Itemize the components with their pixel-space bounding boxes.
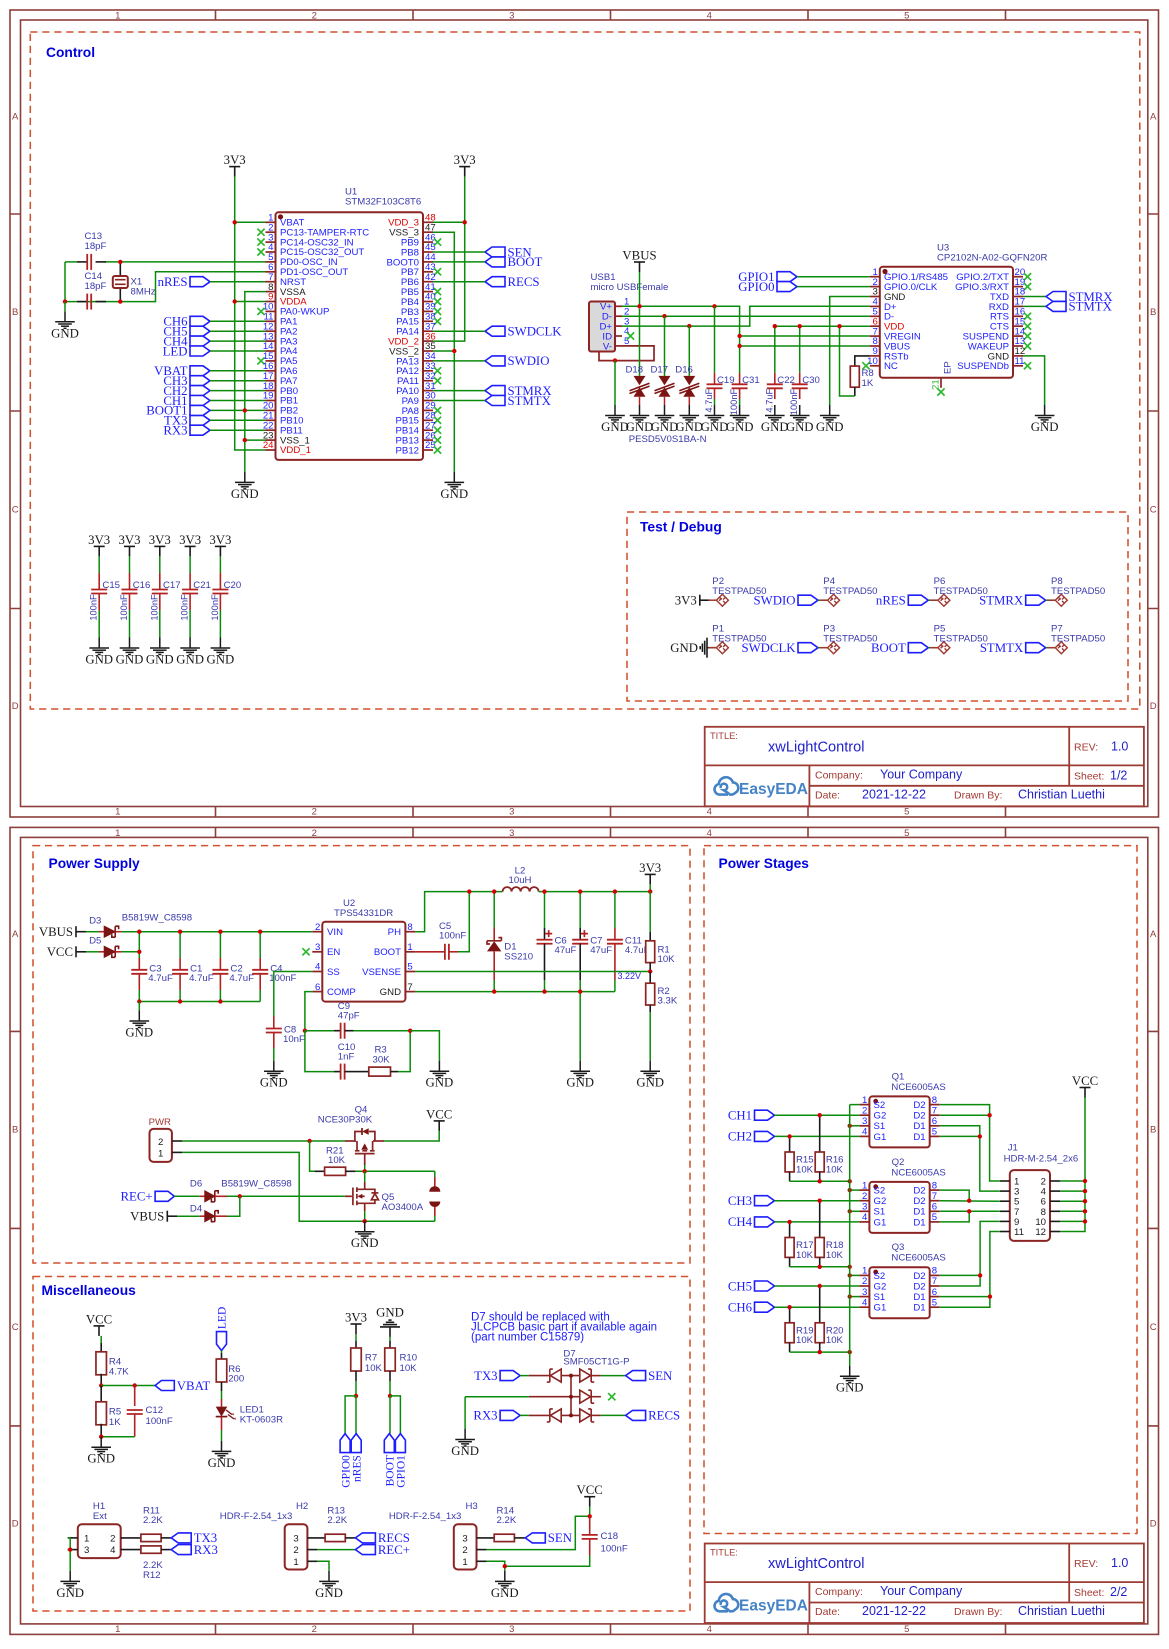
junction VBUS/D18 [637, 304, 641, 308]
svg-text:GND: GND [701, 420, 729, 434]
wire VCC rail (J1) [1060, 1098, 1085, 1232]
net flag CH6 [755, 1302, 775, 1312]
svg-text:D5: D5 [89, 936, 101, 947]
ground (R5/C12) [91, 1437, 111, 1454]
net flag nRES (strap) [351, 1434, 361, 1453]
net flag RX3 [190, 425, 210, 435]
svg-text:GND: GND [315, 1586, 343, 1600]
wire 3V3 to VDD_2 [433, 177, 465, 342]
svg-text:GND: GND [491, 1586, 519, 1600]
svg-text:BOOT: BOOT [871, 641, 906, 655]
svg-text:RECS: RECS [508, 275, 540, 289]
svg-text:3V3: 3V3 [88, 533, 110, 547]
ground USB shield [605, 405, 625, 422]
wire VCC down [589, 1507, 591, 1517]
connector H2 HDR-F-2.54_1x3 [285, 1524, 308, 1569]
svg-text:REC+: REC+ [378, 1543, 410, 1557]
svg-text:4.7uF: 4.7uF [764, 388, 774, 412]
wire VSENSE row [415, 971, 650, 973]
svg-text:TITLE:: TITLE: [710, 1548, 738, 1558]
svg-text:1K: 1K [109, 1417, 121, 1428]
ground (D7) [455, 1429, 475, 1446]
svg-text:1: 1 [115, 807, 120, 818]
junction VIN/C2 [218, 930, 222, 934]
wire VCC to C3 column [122, 951, 140, 953]
U3 pin 17 RXD [1013, 305, 1023, 307]
net flag BOOT (strap) [384, 1434, 394, 1453]
capacitor C21 100nF [189, 556, 191, 573]
Q2 pin 7 D2 [930, 1200, 940, 1202]
ground crystal [55, 311, 75, 328]
svg-text:3: 3 [862, 1116, 867, 1127]
junction R4/R5/VBAT [99, 1383, 103, 1387]
net flag RX3 (H1) [171, 1545, 191, 1555]
junction VIN/C4 [258, 930, 262, 934]
connector USB1 micro USBFemale [589, 302, 615, 352]
resistor R20 10K [819, 1286, 821, 1323]
U1 pin 15 PA5 [266, 360, 276, 362]
svg-text:BOOT: BOOT [508, 255, 543, 269]
svg-text:100nF: 100nF [601, 1544, 628, 1555]
svg-text:C18: C18 [601, 1531, 619, 1542]
Q3 pin 7 D2 [930, 1285, 940, 1287]
USB1 pin 1 V+ [615, 305, 622, 307]
U3 pin 2 GPIO.0/CLK [870, 286, 880, 288]
PWR pin 2 stub [172, 1140, 182, 1142]
wire R3 to comp node [398, 1031, 410, 1072]
PWR pin 1 stub [172, 1151, 182, 1153]
net flag RECS [485, 277, 505, 287]
U1 pin 6 PD1-OSC_OUT [266, 271, 276, 273]
U1 pin 1 VBAT [266, 221, 276, 223]
net flag SWDCLK (testpad) [798, 643, 818, 653]
U1 pin 20 PB2 [266, 409, 276, 411]
U1 pin 45 PB8 [423, 251, 433, 253]
svg-text:3: 3 [862, 1287, 867, 1298]
U3 pin-1 marker [882, 269, 887, 274]
net flag nRES (testpad) [908, 595, 928, 605]
svg-text:Your Company: Your Company [880, 767, 963, 781]
U3 pin 11 SUSPENDb [1013, 365, 1023, 367]
svg-text:4: 4 [110, 1545, 116, 1556]
U3 pin 12 GND [1013, 355, 1023, 357]
U1 pin 21 PB10 [266, 419, 276, 421]
junction D1/gnd row [492, 989, 496, 993]
svg-text:S1: S1 [874, 1292, 886, 1303]
wire VBAT pin1 [235, 221, 266, 223]
net flag CH4 [190, 336, 210, 346]
title block [705, 727, 1144, 807]
U1 pin-1 marker [278, 214, 283, 219]
svg-text:VCC: VCC [86, 1312, 112, 1326]
svg-text:GND: GND [376, 1306, 404, 1320]
svg-text:REC+: REC+ [120, 1190, 152, 1204]
TVS diode D17 (PESD5V0S1BA-N) [664, 316, 666, 376]
junction VCC rail [1083, 1209, 1087, 1213]
svg-text:CH3: CH3 [728, 1194, 752, 1208]
Q2 pin 8 D2 [930, 1189, 940, 1191]
Q1 pin 2 G2 [859, 1114, 869, 1116]
Power Stages section box [704, 846, 1137, 1534]
Q1 pin 3 S1 [859, 1125, 869, 1127]
svg-text:RECS: RECS [648, 1409, 680, 1423]
U1 pin 39 PB3 [423, 310, 433, 312]
U3 pin 7 VREGIN [870, 335, 880, 337]
U2 pin 5 VSENSE [405, 971, 415, 973]
U3 pin 13 WAKEUP [1013, 345, 1023, 347]
U3 pin 4 D+ [870, 305, 880, 307]
junction Q3 D1 [988, 1294, 992, 1298]
wire Q2 D2 to J1 pin5 [940, 1190, 970, 1201]
LED LED1 KT-0603R [221, 1391, 223, 1399]
svg-text:5: 5 [904, 807, 909, 818]
svg-text:1: 1 [293, 1557, 298, 1568]
resistor R11 2.2K [121, 1537, 141, 1539]
svg-text:TESTPAD50: TESTPAD50 [1051, 634, 1105, 645]
svg-text:6: 6 [932, 1287, 937, 1298]
svg-text:2.2K: 2.2K [497, 1515, 517, 1526]
svg-text:G1: G1 [874, 1303, 887, 1314]
svg-text:4: 4 [707, 1624, 712, 1635]
wire R21 to Q5 drain [356, 1170, 435, 1172]
wire Q3 D2 to J1 pin9 [940, 1221, 1000, 1286]
junction R16/CH1 [818, 1113, 822, 1117]
svg-text:200: 200 [228, 1374, 244, 1385]
svg-text:100nF: 100nF [149, 594, 159, 621]
resistor R2 3.3K [649, 972, 651, 984]
svg-text:4: 4 [862, 1127, 868, 1138]
svg-text:TESTPAD50: TESTPAD50 [823, 586, 877, 597]
resistor R21 10K [310, 1141, 315, 1171]
connector PWR [150, 1129, 172, 1162]
svg-text:D: D [12, 701, 19, 712]
wire Q1 D2 pin7 [940, 1114, 990, 1116]
svg-text:Q1: Q1 [892, 1071, 905, 1082]
U1 pin 44 BOOT0 [423, 261, 433, 263]
svg-text:5: 5 [932, 1212, 937, 1223]
svg-text:C30: C30 [802, 375, 820, 386]
junction C18 gnd/H3 gnd [503, 1564, 507, 1568]
wire left cap leg [64, 262, 66, 302]
crystal X1 8MHz [119, 262, 121, 276]
TVS diode D18 (PESD5V0S1BA-N) [639, 309, 641, 376]
svg-text:REV:: REV: [1074, 741, 1098, 753]
wire CH3 to U1 [210, 380, 266, 382]
svg-text:VCC: VCC [1072, 1074, 1098, 1088]
wire TXD [1023, 296, 1046, 298]
svg-text:2: 2 [862, 1276, 867, 1287]
svg-text:1: 1 [407, 942, 412, 953]
U3 pin 21 EP [940, 378, 942, 388]
USB1 shield path [599, 346, 654, 361]
capacitor C9 47pF [305, 1030, 334, 1032]
capacitor C30 100nF [799, 326, 801, 373]
svg-text:8: 8 [932, 1095, 937, 1106]
svg-text:EP: EP [943, 361, 954, 374]
svg-text:D3: D3 [89, 916, 101, 927]
sheet border frame [10, 827, 1159, 1634]
wire BOOT [433, 261, 485, 263]
svg-text:VDD_1: VDD_1 [280, 445, 311, 456]
U1 pin 40 PB4 [423, 301, 433, 303]
USB-UART bridge U3 CP2102N-A02-GQFN20R [880, 267, 1013, 378]
svg-text:GND: GND [260, 1076, 288, 1090]
Q2 pin 1 S2 [859, 1189, 869, 1191]
junction VSSA/VSS_1 [243, 438, 247, 442]
wire VSS_2 pin35 [433, 350, 454, 352]
ground (D16) [680, 405, 700, 422]
svg-text:G2: G2 [874, 1281, 887, 1292]
ground (Q5) [355, 1221, 375, 1238]
U1 pin 41 PB5 [423, 291, 433, 293]
svg-text:4: 4 [707, 807, 712, 818]
wire PWR1 to ground row [182, 1152, 435, 1221]
U2 pin 1 BOOT [405, 951, 415, 953]
capacitor C7 47uF [579, 892, 581, 928]
transistor Q1 NCE6005AS (dual N-MOSFET) [869, 1096, 929, 1147]
junction VCC rail [1083, 1179, 1087, 1183]
wire SWDIO to P3... P4 [818, 599, 828, 601]
svg-text:TITLE:: TITLE: [710, 731, 738, 741]
svg-text:6: 6 [932, 1202, 937, 1213]
svg-text:2: 2 [312, 1624, 317, 1635]
svg-text:D: D [1150, 701, 1157, 712]
Q2 pin 6 D1 [930, 1210, 940, 1212]
testpad P2 TESTPAD50 [716, 594, 728, 606]
svg-text:8MHz: 8MHz [131, 287, 156, 298]
ground (C21) [180, 638, 200, 655]
junction pulldown/rail [818, 1179, 822, 1183]
wire GND drop [579, 992, 581, 1061]
U3 pin 5 D- [870, 315, 880, 317]
svg-text:B: B [12, 1124, 18, 1135]
svg-text:B: B [1150, 307, 1156, 318]
capacitor C15 100nF [98, 556, 100, 573]
svg-text:PWR: PWR [149, 1117, 171, 1128]
svg-text:STMRX: STMRX [979, 594, 1024, 608]
svg-text:HDR-F-2.54_1x3: HDR-F-2.54_1x3 [220, 1511, 293, 1522]
transistor Q4 NCE30P30K (P-MOSFET) [345, 1140, 356, 1142]
svg-text:Your Company: Your Company [880, 1584, 963, 1598]
wire R8 to VDD [840, 326, 855, 396]
junction Q1 D1 [978, 1134, 982, 1138]
net flag SEN (H3) [525, 1533, 545, 1543]
USB1 pin 3 D+ [615, 325, 622, 327]
svg-text:RX3: RX3 [163, 424, 187, 438]
wire to nRES flag [355, 1396, 357, 1434]
U2 pin 2 VIN [312, 931, 322, 933]
svg-text:GPIO0: GPIO0 [738, 280, 774, 294]
svg-text:STMTX: STMTX [508, 394, 552, 408]
resistor R3 30K [354, 1071, 369, 1073]
svg-text:VCC: VCC [577, 1483, 603, 1497]
svg-text:10K: 10K [400, 1363, 418, 1374]
svg-text:GND: GND [176, 653, 204, 667]
wire VDDA pin9 [235, 301, 266, 303]
svg-text:D2: D2 [913, 1196, 925, 1207]
svg-text:VBUS: VBUS [622, 248, 656, 262]
svg-text:SS: SS [327, 967, 340, 978]
net flag CH2 [190, 386, 210, 396]
wire input cap ground rail [139, 1001, 260, 1003]
U3 pin 1 GPIO.1/RS485 [870, 276, 880, 278]
svg-text:B5819W_C8598: B5819W_C8598 [122, 912, 192, 923]
U3 pin 18 TXD [1013, 296, 1023, 298]
svg-text:GND: GND [146, 653, 174, 667]
svg-text:1: 1 [462, 1557, 467, 1568]
svg-text:B5819W_C8598: B5819W_C8598 [221, 1178, 291, 1189]
svg-text:D16: D16 [675, 364, 693, 375]
U1 pin 2 PC13-TAMPER-RTC [266, 231, 276, 233]
U1 pin 30 PA9 [423, 400, 433, 402]
U1 pin 31 PA10 [423, 390, 433, 392]
svg-text:3: 3 [509, 11, 514, 22]
svg-text:nRES: nRES [351, 1455, 363, 1482]
resistor R14 2.2K [477, 1537, 495, 1539]
J1 pin 9 [1000, 1220, 1010, 1222]
junction R15/CH2 [787, 1134, 791, 1138]
svg-text:GND: GND [56, 1586, 84, 1600]
svg-text:SWDIO: SWDIO [508, 354, 550, 368]
svg-text:GND: GND [51, 326, 79, 340]
wire to GPIO0 flag [345, 1396, 356, 1434]
testpad P6 TESTPAD50 [938, 594, 950, 606]
net flag SWDIO (testpad) [798, 595, 818, 605]
svg-text:PESD5V0S1BA-N: PESD5V0S1BA-N [629, 434, 707, 445]
svg-text:D2: D2 [913, 1281, 925, 1292]
svg-text:SEN: SEN [548, 1531, 572, 1545]
regulator U2 TPS54331DR [322, 922, 405, 1002]
svg-text:47uF: 47uF [590, 945, 612, 956]
U3 pin 8 VBUS [870, 345, 880, 347]
junction C11/rail [613, 889, 617, 893]
svg-text:STM32F103C8T6: STM32F103C8T6 [345, 196, 421, 207]
svg-text:18pF: 18pF [85, 241, 107, 252]
capacitor C16 100nF [129, 556, 131, 573]
junction VSS_3/VSS_2 [452, 349, 456, 353]
J1 pin 10 [1050, 1220, 1060, 1222]
svg-text:1: 1 [862, 1095, 867, 1106]
svg-text:C16: C16 [133, 580, 151, 591]
svg-text:CP2102N-A02-GQFN20R: CP2102N-A02-GQFN20R [937, 252, 1047, 263]
wire Q5 source [364, 1211, 366, 1221]
wire SEN [433, 251, 485, 253]
wire nRES to P6 [928, 599, 938, 601]
title block [705, 1544, 1144, 1624]
svg-text:HDR-F-2.54_1x3: HDR-F-2.54_1x3 [389, 1511, 462, 1522]
svg-text:2: 2 [312, 11, 317, 22]
U1 pin 3 PC14-OSC32_IN [266, 241, 276, 243]
svg-text:2: 2 [312, 828, 317, 839]
capacitor C19 4.7uF [714, 306, 716, 373]
junction VDD/C30 [798, 324, 802, 328]
svg-text:10K: 10K [796, 1164, 814, 1175]
resistor R4 4.7K [100, 1336, 102, 1343]
capacitor C8 10nF [273, 1016, 275, 1029]
U1 pin 47 VSS_3 [423, 231, 433, 233]
net flag RX3 (D7) [500, 1410, 520, 1420]
svg-text:NCE6005AS: NCE6005AS [891, 1167, 945, 1178]
wire STMTX to P7 [1046, 647, 1056, 649]
Q1 pin 7 D2 [930, 1114, 940, 1116]
U3 pin 10 NC [870, 365, 880, 367]
svg-text:100nF: 100nF [789, 388, 799, 415]
svg-text:LED: LED [163, 344, 188, 358]
net flag STMRX (U3) [1046, 292, 1066, 302]
net flag BOOT (testpad) [908, 643, 928, 653]
wire VDD_3 pin48 [433, 221, 465, 223]
svg-text:Q2: Q2 [892, 1157, 905, 1168]
wire SWDIO [433, 360, 485, 362]
junction cap gnd rail [178, 999, 182, 1003]
svg-text:RX3: RX3 [194, 1543, 218, 1557]
Q3 pin 8 D2 [930, 1274, 940, 1276]
wire nRES to NRST [210, 281, 266, 283]
wire TX3 into D7 [520, 1375, 529, 1377]
capacitor C4 100nF [259, 932, 261, 958]
net flag TX3 (H1) [171, 1533, 191, 1543]
ground (D18) [630, 405, 650, 422]
svg-text:SWDIO: SWDIO [754, 594, 796, 608]
svg-text:A: A [12, 929, 19, 940]
svg-text:4: 4 [862, 1297, 868, 1308]
junction VBUS/pin8 [737, 344, 741, 348]
svg-text:GND: GND [380, 987, 401, 998]
svg-text:1: 1 [115, 1624, 120, 1635]
svg-text:1nF: 1nF [338, 1052, 355, 1063]
svg-text:Power Supply: Power Supply [49, 856, 141, 871]
resistor R19 10K [789, 1307, 791, 1323]
svg-text:NC: NC [884, 361, 898, 372]
U3 no-connect NC pin10 [862, 362, 869, 369]
junction VCC/C3 [137, 950, 141, 954]
capacitor C12 100nF [134, 1386, 136, 1407]
svg-text:RX3: RX3 [473, 1409, 497, 1423]
U1 pin 5 PD0-OSC_IN [266, 261, 276, 263]
net flag TX3 [190, 415, 210, 425]
U1 pin 10 PA0-WKUP [266, 310, 276, 312]
svg-text:2: 2 [315, 922, 320, 933]
svg-text:C: C [12, 505, 19, 516]
junction feedback node [648, 969, 652, 973]
ground (H3) [495, 1571, 515, 1588]
svg-text:Date:: Date: [815, 789, 840, 801]
svg-text:D4: D4 [190, 1203, 203, 1214]
svg-text:V-: V- [603, 341, 612, 352]
U3 pin 19 GPIO.3/RXT [1013, 286, 1023, 288]
junction Q5 source/gnd row [363, 1219, 367, 1223]
svg-text:PH: PH [388, 927, 401, 938]
junction cap gnd rail [218, 999, 222, 1003]
Miscellaneous section box [33, 1277, 690, 1612]
svg-text:2: 2 [312, 807, 317, 818]
wire J1 pin 2 to VCC rail [1060, 1180, 1085, 1182]
svg-text:C17: C17 [163, 580, 181, 591]
svg-text:100nF: 100nF [729, 388, 739, 415]
U2 pin 7 GND [405, 991, 415, 993]
ground (U3 GND) [820, 405, 840, 422]
svg-text:Miscellaneous: Miscellaneous [42, 1283, 137, 1298]
ground (H2) [319, 1571, 339, 1588]
svg-text:D1: D1 [913, 1303, 925, 1314]
Test / Debug section box [627, 512, 1128, 701]
svg-text:3: 3 [509, 828, 514, 839]
svg-text:CH2: CH2 [728, 1130, 752, 1144]
svg-text:Sheet:: Sheet: [1074, 1587, 1104, 1599]
wire Q3 S1 to rail [850, 1296, 860, 1298]
svg-text:PB12: PB12 [396, 445, 419, 456]
wire to GPIO1 flag [390, 1396, 400, 1434]
